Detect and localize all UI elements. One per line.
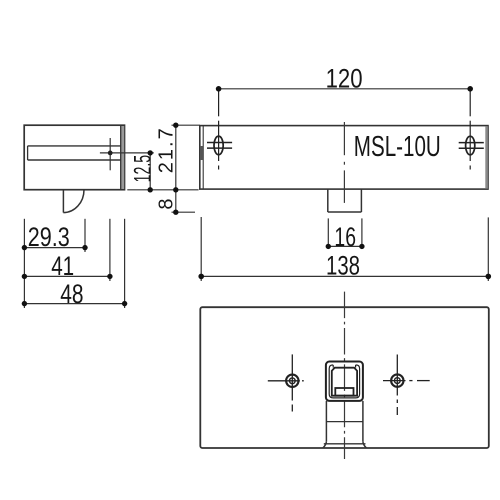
dim dots 138 [198,274,204,280]
right hole (bottom view) [383,355,430,416]
extension right edge [124,219,126,308]
front view bottom tab [328,189,362,212]
svg-text:120: 120 [326,63,363,93]
slot top line [28,145,121,147]
hole center dot (side view) [108,151,113,156]
connector tongue [335,388,353,396]
dim 12.5 / 21.7 shared bottom extension [127,189,198,191]
dim dots 21.7 / 8 [173,123,178,128]
svg-text:8: 8 [156,198,178,209]
svg-text:MSL-10U: MSL-10U [354,131,441,163]
front view center dash-dot line [343,122,345,203]
dim 21.7 + 8 line [175,125,177,212]
side view right-edge inner line [120,125,122,190]
side view right-edge gray flange fill [121,126,124,189]
foot top line [324,443,366,445]
front view body outline [200,126,488,190]
bottom view vertical center line [344,292,346,459]
column division line [326,421,363,423]
left hole (bottom view) [268,354,304,411]
dim dots 16 [326,244,331,249]
dim 48 line [24,303,124,305]
svg-text:16: 16 [334,222,356,252]
dim 138 [201,217,488,281]
dim dots 120 [216,86,222,92]
dim 12.5 line [149,153,151,190]
bottom hook tab left edge [62,190,64,213]
slot edge mark on left edge [200,146,203,160]
dim 8 bottom extension [172,211,196,213]
hole crosshair horizontal (side view), runs into 12.5 extension [100,152,154,154]
lower dimension group of side view [24,219,124,308]
foot flare left [323,441,327,448]
front view left inner line [202,126,204,190]
front view right-edge thick gray [485,126,488,189]
dim dots 48 [22,301,27,306]
dim dots 12.5 [148,150,153,155]
connector outer shell [326,362,363,401]
dim dots 41 [22,274,27,279]
side view body outline [24,125,124,190]
extension hole center [109,219,111,281]
bottom view body outline [200,307,489,448]
connector inner shell line (open top with corner hooks) [329,365,359,398]
svg-text:41: 41 [51,251,74,281]
USB-B connector shell (bottom view) [326,362,363,401]
slot bottom line [28,159,121,161]
shell hook right [355,365,357,368]
extension tab right [84,219,86,252]
left mounting hole (front view) [207,91,232,170]
dim 29.3 line [24,247,85,249]
dim 120 line [219,88,471,90]
dim 41 line [24,275,110,277]
extension left edge [23,219,25,308]
svg-text:29.3: 29.3 [28,222,70,252]
foot flare right [363,441,367,448]
svg-text:21.7: 21.7 [155,128,177,173]
dim dots 29.3 [22,245,27,250]
dim 21.7 top extension [172,124,200,126]
connector column below shell [323,401,367,448]
svg-text:12.5: 12.5 [130,155,157,183]
bottom hook tab arc [63,190,84,213]
shell hook left [332,365,334,368]
hole crosshair vertical (side view) [109,138,111,170]
slot left closure [27,146,29,160]
svg-text:138: 138 [326,250,360,280]
svg-text:48: 48 [60,279,83,309]
dim 16 [328,218,362,247]
right mounting hole (front view) [459,91,484,170]
connector opening with chamfered top corners [332,368,357,396]
